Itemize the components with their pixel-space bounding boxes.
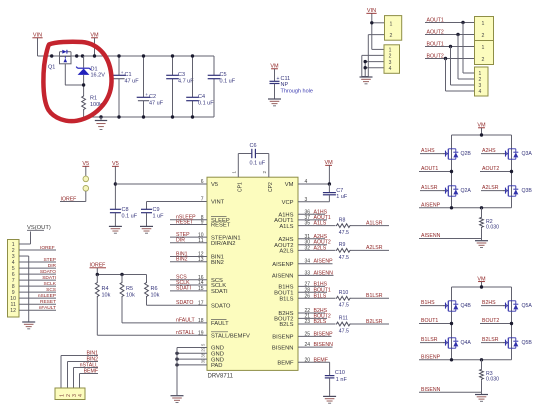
- svg-text:IOREF: IOREF: [40, 245, 55, 251]
- svg-text:C3: C3: [178, 72, 185, 78]
- svg-text:V5: V5: [211, 182, 218, 188]
- svg-text:4: 4: [389, 66, 392, 72]
- svg-text:2: 2: [482, 33, 485, 39]
- svg-text:nSLEEP: nSLEEP: [38, 293, 56, 299]
- svg-text:AISENN: AISENN: [272, 274, 294, 280]
- svg-text:A1LSR: A1LSR: [366, 220, 383, 226]
- svg-text:AOUT2: AOUT2: [482, 166, 499, 172]
- svg-text:VM: VM: [285, 182, 294, 188]
- svg-text:10k: 10k: [151, 293, 160, 299]
- svg-text:C9: C9: [153, 207, 160, 213]
- svg-text:A2LSR: A2LSR: [482, 185, 499, 191]
- svg-text:C11: C11: [281, 76, 291, 82]
- svg-text:39: 39: [201, 358, 206, 363]
- svg-text:1: 1: [482, 45, 485, 51]
- svg-text:C8: C8: [122, 207, 129, 213]
- svg-text:BISENN: BISENN: [272, 345, 294, 351]
- svg-text:9: 9: [201, 220, 204, 226]
- svg-text:SCS: SCS: [46, 287, 56, 293]
- svg-text:AOUT1: AOUT1: [421, 166, 438, 172]
- svg-text:1 nF: 1 nF: [336, 377, 348, 383]
- svg-text:4: 4: [479, 89, 482, 95]
- svg-text:R4: R4: [102, 286, 109, 292]
- svg-text:CP2: CP2: [268, 182, 274, 192]
- svg-text:NP: NP: [281, 82, 289, 88]
- svg-text:2: 2: [389, 54, 392, 60]
- svg-text:47 uF: 47 uF: [149, 100, 164, 106]
- svg-text:3: 3: [389, 60, 392, 66]
- svg-text:4.7 uF: 4.7 uF: [178, 78, 194, 84]
- svg-text:RESET: RESET: [176, 219, 194, 225]
- svg-text:1: 1: [59, 394, 65, 397]
- svg-text:10k: 10k: [126, 293, 135, 299]
- svg-text:0.030: 0.030: [486, 224, 499, 230]
- svg-text:B1LSR: B1LSR: [366, 293, 383, 299]
- svg-text:Q1: Q1: [48, 65, 55, 71]
- svg-text:0.1 uF: 0.1 uF: [198, 100, 214, 106]
- svg-text:C4: C4: [198, 94, 205, 100]
- svg-text:38: 38: [201, 352, 206, 357]
- svg-text:Q4A: Q4A: [461, 340, 472, 346]
- svg-text:AISENP: AISENP: [272, 262, 293, 268]
- svg-text:BISENP: BISENP: [272, 335, 293, 341]
- svg-text:+: +: [145, 92, 148, 97]
- svg-text:47 uF: 47 uF: [125, 78, 140, 84]
- svg-text:2: 2: [390, 33, 393, 39]
- svg-text:B2LSR: B2LSR: [482, 337, 499, 343]
- svg-text:B1HS: B1HS: [421, 300, 435, 306]
- svg-text:R5: R5: [126, 286, 133, 292]
- svg-text:R9: R9: [339, 242, 346, 248]
- svg-text:47.5: 47.5: [339, 230, 349, 236]
- svg-text:18: 18: [198, 318, 204, 324]
- svg-text:+: +: [277, 76, 280, 82]
- svg-text:FAULT: FAULT: [211, 321, 229, 327]
- svg-text:C6: C6: [250, 143, 257, 149]
- svg-text:4: 4: [78, 394, 84, 397]
- svg-text:A2LSR: A2LSR: [366, 245, 383, 251]
- svg-text:Q2A: Q2A: [461, 188, 472, 194]
- svg-text:R11: R11: [339, 316, 348, 322]
- svg-text:7: 7: [201, 197, 204, 203]
- svg-text:17: 17: [198, 301, 204, 307]
- svg-text:0.1 uF: 0.1 uF: [220, 78, 236, 84]
- svg-text:10k: 10k: [102, 293, 111, 299]
- svg-text:RESET: RESET: [211, 223, 231, 229]
- svg-text:BOUT2: BOUT2: [482, 318, 499, 324]
- svg-text:nFAULT: nFAULT: [176, 318, 195, 324]
- svg-text:SDATO: SDATO: [176, 300, 193, 306]
- svg-text:12: 12: [10, 308, 16, 314]
- svg-text:nFAULT: nFAULT: [39, 305, 56, 311]
- svg-text:B1LSR: B1LSR: [421, 337, 438, 343]
- svg-text:DIR: DIR: [48, 263, 57, 269]
- svg-text:0.1 uF: 0.1 uF: [122, 214, 138, 220]
- svg-text:SDATI: SDATI: [211, 289, 228, 295]
- svg-text:A1HS: A1HS: [421, 148, 435, 154]
- svg-text:19: 19: [198, 330, 204, 336]
- svg-text:SCLK: SCLK: [43, 281, 56, 287]
- svg-text:1: 1: [482, 21, 485, 27]
- svg-text:C1: C1: [125, 72, 132, 78]
- svg-text:AISENP: AISENP: [421, 202, 441, 208]
- svg-text:13: 13: [198, 257, 204, 263]
- svg-text:VINT: VINT: [211, 200, 225, 206]
- svg-text:Q3B: Q3B: [522, 188, 533, 194]
- svg-text:47.5: 47.5: [339, 328, 349, 334]
- svg-text:B1LS: B1LS: [279, 297, 293, 303]
- svg-text:R8: R8: [339, 217, 346, 223]
- svg-text:B2LSR: B2LSR: [366, 319, 383, 325]
- svg-text:nSTALL: nSTALL: [176, 330, 194, 336]
- svg-text:Q2B: Q2B: [461, 151, 472, 157]
- svg-text:1: 1: [390, 21, 393, 27]
- svg-text:CP1: CP1: [238, 182, 244, 192]
- svg-text:PAD: PAD: [211, 363, 223, 369]
- svg-text:B2LS: B2LS: [279, 322, 293, 328]
- svg-text:IOREF: IOREF: [61, 196, 77, 202]
- svg-text:1 uF: 1 uF: [336, 194, 348, 200]
- svg-text:STEP: STEP: [43, 257, 56, 263]
- svg-text:16.2V: 16.2V: [91, 73, 106, 79]
- svg-text:AISENN: AISENN: [421, 233, 441, 239]
- svg-text:DIR/AIN2: DIR/AIN2: [211, 241, 235, 247]
- svg-text:Through hole: Through hole: [281, 89, 313, 95]
- svg-text:47.5: 47.5: [339, 303, 349, 309]
- svg-text:VCP: VCP: [282, 200, 294, 206]
- svg-text:1 uF: 1 uF: [153, 214, 165, 220]
- svg-text:BISENN: BISENN: [421, 387, 441, 393]
- svg-text:BIN2: BIN2: [211, 260, 224, 266]
- svg-text:+: +: [121, 70, 124, 75]
- svg-text:A2HS: A2HS: [482, 148, 496, 154]
- svg-text:SDATO: SDATO: [211, 304, 231, 310]
- svg-text:STALL/BEMFV: STALL/BEMFV: [211, 333, 250, 339]
- svg-text:Q3A: Q3A: [522, 151, 533, 157]
- svg-text:C10: C10: [335, 370, 345, 376]
- svg-text:B2HS: B2HS: [482, 300, 496, 306]
- svg-text:A1LS: A1LS: [279, 224, 293, 230]
- svg-text:BISENP: BISENP: [421, 354, 441, 360]
- svg-text:A2LS: A2LS: [279, 249, 293, 255]
- svg-text:2: 2: [482, 57, 485, 63]
- svg-text:15: 15: [198, 286, 204, 292]
- svg-text:6: 6: [201, 179, 204, 185]
- svg-text:SDATO: SDATO: [40, 269, 56, 275]
- svg-text:R10: R10: [339, 290, 349, 296]
- svg-text:A1LSR: A1LSR: [421, 185, 438, 191]
- svg-text:BIN2: BIN2: [176, 257, 188, 263]
- svg-text:29: 29: [201, 346, 206, 351]
- svg-text:47.5: 47.5: [339, 255, 349, 261]
- svg-text:3: 3: [305, 197, 308, 203]
- svg-text:R6: R6: [151, 286, 158, 292]
- svg-text:0.030: 0.030: [486, 376, 499, 382]
- svg-text:SDATI: SDATI: [176, 286, 191, 292]
- svg-text:Q5B: Q5B: [522, 340, 533, 346]
- svg-text:SDATI: SDATI: [42, 275, 56, 281]
- svg-text:11: 11: [198, 238, 203, 244]
- svg-text:DIR: DIR: [176, 238, 185, 244]
- svg-text:C2: C2: [149, 94, 156, 100]
- svg-text:DRV8711: DRV8711: [208, 373, 234, 379]
- svg-text:C5: C5: [220, 72, 227, 78]
- svg-text:BOUT1: BOUT1: [421, 318, 438, 324]
- svg-text:0.1 uF: 0.1 uF: [250, 160, 266, 166]
- svg-text:Q5A: Q5A: [522, 303, 533, 309]
- svg-text:RESET: RESET: [40, 299, 56, 305]
- svg-text:BEMF: BEMF: [277, 361, 294, 367]
- svg-text:Q4B: Q4B: [461, 303, 472, 309]
- svg-text:R1: R1: [90, 96, 97, 102]
